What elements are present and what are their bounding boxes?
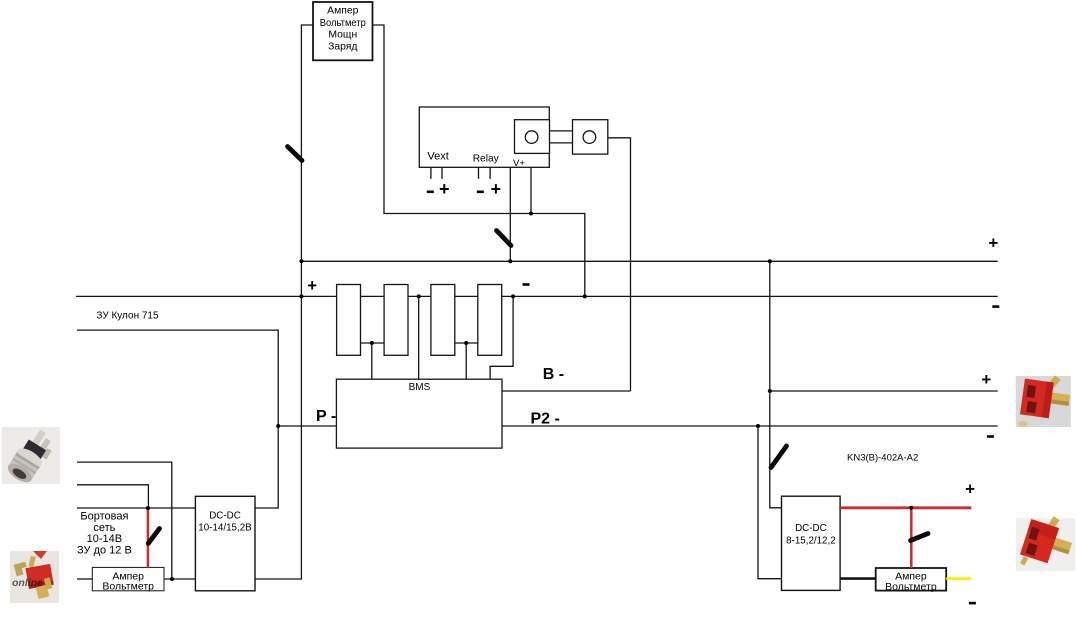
wire right riser from P2- to DC-DC2 [758, 426, 782, 579]
wire minus bus [76, 295, 998, 297]
wire yellow output [946, 577, 971, 580]
junction minus bus / meter feed [299, 294, 303, 298]
node output 2 minus [987, 435, 994, 438]
junction plus bus / right riser [768, 259, 772, 263]
svg-text:P2 -: P2 - [531, 411, 560, 428]
battery cell 2 [384, 285, 408, 356]
ammeter voltmeter 2 [876, 568, 947, 593]
wire balance link cells 3-4 [455, 342, 478, 344]
svg-text:+: + [439, 179, 450, 199]
junction input bus / red drop [146, 506, 150, 510]
label Relay minus [477, 191, 484, 194]
wire right output plus [770, 390, 998, 392]
junction minus bus / relay drop [583, 294, 587, 298]
wire right riser from plus bus to DC-DC2 [770, 261, 782, 508]
junction red output / red drop [909, 506, 913, 510]
node output 3 minus [969, 602, 976, 605]
control module U1 [419, 107, 549, 169]
svg-text:Бортовая: Бортовая [80, 511, 128, 523]
ammeter voltmeter 1 [92, 567, 164, 592]
wire relay contact 1 drop [530, 144, 532, 214]
wire ammeter 1 to DC-DC1 [164, 578, 195, 580]
svg-text:DC-DC: DC-DC [209, 511, 241, 522]
wire from meter box left terminal down to DC-DC1 right-bottom [255, 25, 313, 579]
label Vext minus [427, 191, 434, 194]
wire B- from BMS [502, 390, 631, 392]
wire cell 4 tap to BMS [490, 296, 513, 379]
svg-text:KN3(B)-402A-A2: KN3(B)-402A-A2 [847, 453, 918, 464]
junction balance link 2 [464, 341, 468, 345]
wire board-net input stub [77, 462, 172, 579]
battery cell 1 [337, 285, 361, 356]
junction P- / charger riser [276, 424, 280, 428]
wire input bus to DC-DC1 [77, 507, 195, 509]
meter box Amper Voltmeter Moshch Zaryad [313, 2, 373, 60]
wire red output plus of DC-DC2 [840, 506, 971, 509]
svg-text:DC-DC: DC-DC [795, 523, 827, 534]
battery cell 4 [478, 285, 502, 356]
switch S1 on meter feed [288, 147, 303, 161]
wire balance tap 2 to BMS [418, 296, 420, 379]
switch S4 on red drop right [911, 534, 929, 541]
svg-text:V+: V+ [513, 158, 525, 169]
svg-text:Мощн: Мощн [328, 30, 357, 41]
svg-text:Заряд: Заряд [328, 42, 357, 53]
svg-text:P -: P - [316, 408, 336, 425]
label board net [77, 511, 132, 557]
DC-DC converter 2 [782, 496, 841, 590]
wire from relay contact 2 down to B- line [608, 138, 631, 391]
svg-text:Relay: Relay [473, 154, 500, 165]
svg-text:+: + [988, 233, 998, 252]
switch S5 on red drop left [148, 529, 159, 544]
wire from meter box right terminal down and across to minus bus [373, 25, 585, 296]
svg-text:Ампер: Ампер [327, 6, 358, 17]
wire stub to ammeter 1 [77, 578, 92, 580]
junction P2- / DC-DC2 riser [756, 424, 760, 428]
photo DC barrel jack [2, 425, 60, 486]
wire charger-12V input stub [77, 485, 148, 508]
switch S3 on right riser [771, 446, 787, 468]
svg-text:online: online [12, 577, 43, 589]
DC-DC converter 1 [195, 496, 255, 591]
photo T-plug right middle [1016, 375, 1072, 427]
wire P- [278, 425, 336, 427]
svg-text:+: + [981, 370, 991, 389]
wire balance tap 3 to BMS [465, 343, 467, 379]
junction plus bus / meter feed [299, 259, 303, 263]
pin ticks Relay [479, 167, 491, 179]
wire balance tap 1 to BMS [371, 343, 373, 379]
svg-text:BMS: BMS [409, 382, 431, 393]
node battery minus [523, 283, 530, 286]
wire P2- [502, 425, 998, 427]
wire plus bus [301, 260, 997, 262]
junction board net / ammeter wire [170, 577, 174, 581]
svg-text:ЗУ до 12 В: ЗУ до 12 В [77, 545, 132, 557]
relay contact block 1 [515, 120, 550, 154]
wire red drop to ammeter 1 [147, 508, 150, 567]
wire red drop to ammeter 2 [910, 508, 913, 568]
photo T-plug right bottom [1016, 516, 1075, 571]
pin ticks Vext [431, 167, 442, 179]
wire V+ down to plus bus [509, 161, 511, 261]
svg-text:10-14В: 10-14В [87, 533, 122, 545]
svg-text:+: + [307, 277, 317, 295]
svg-text:10-14/15,2В: 10-14/15,2В [198, 522, 252, 533]
junction minus bus / balance tap 2 [417, 294, 421, 298]
photo T-plug left [10, 551, 59, 603]
svg-text:ЗУ Кулон 715: ЗУ Кулон 715 [96, 311, 159, 322]
svg-text:Vext: Vext [427, 151, 448, 163]
junction balance link 1 [370, 341, 374, 345]
junction relay contact wire [529, 212, 533, 216]
battery cell 3 [431, 285, 455, 356]
wire relay link bars [550, 131, 573, 143]
svg-text:Вольтметр: Вольтметр [885, 581, 937, 593]
wire charger Kulon 715 riser [77, 330, 278, 508]
svg-text:+: + [491, 179, 502, 199]
svg-text:+: + [965, 480, 975, 499]
svg-text:Вольтметр: Вольтметр [102, 581, 154, 593]
junction right riser / output plus [768, 389, 772, 393]
svg-text:Вольтметр: Вольтметр [320, 18, 366, 29]
junction minus bus / cell 4 tap [511, 294, 515, 298]
wire black DC-DC2 to ammeter 2 [840, 577, 876, 580]
relay contact block 2 [573, 120, 608, 154]
node output 1 minus [992, 305, 999, 308]
svg-text:8-15,2/12,2: 8-15,2/12,2 [786, 536, 836, 547]
switch S2 on V+ wire [497, 231, 512, 246]
svg-text:B -: B - [543, 366, 564, 383]
svg-text:сеть: сеть [93, 522, 115, 534]
BMS U2 [336, 379, 502, 448]
junction plus bus / V+ wire [508, 259, 512, 263]
wire balance link cells 1-2 [361, 342, 385, 344]
